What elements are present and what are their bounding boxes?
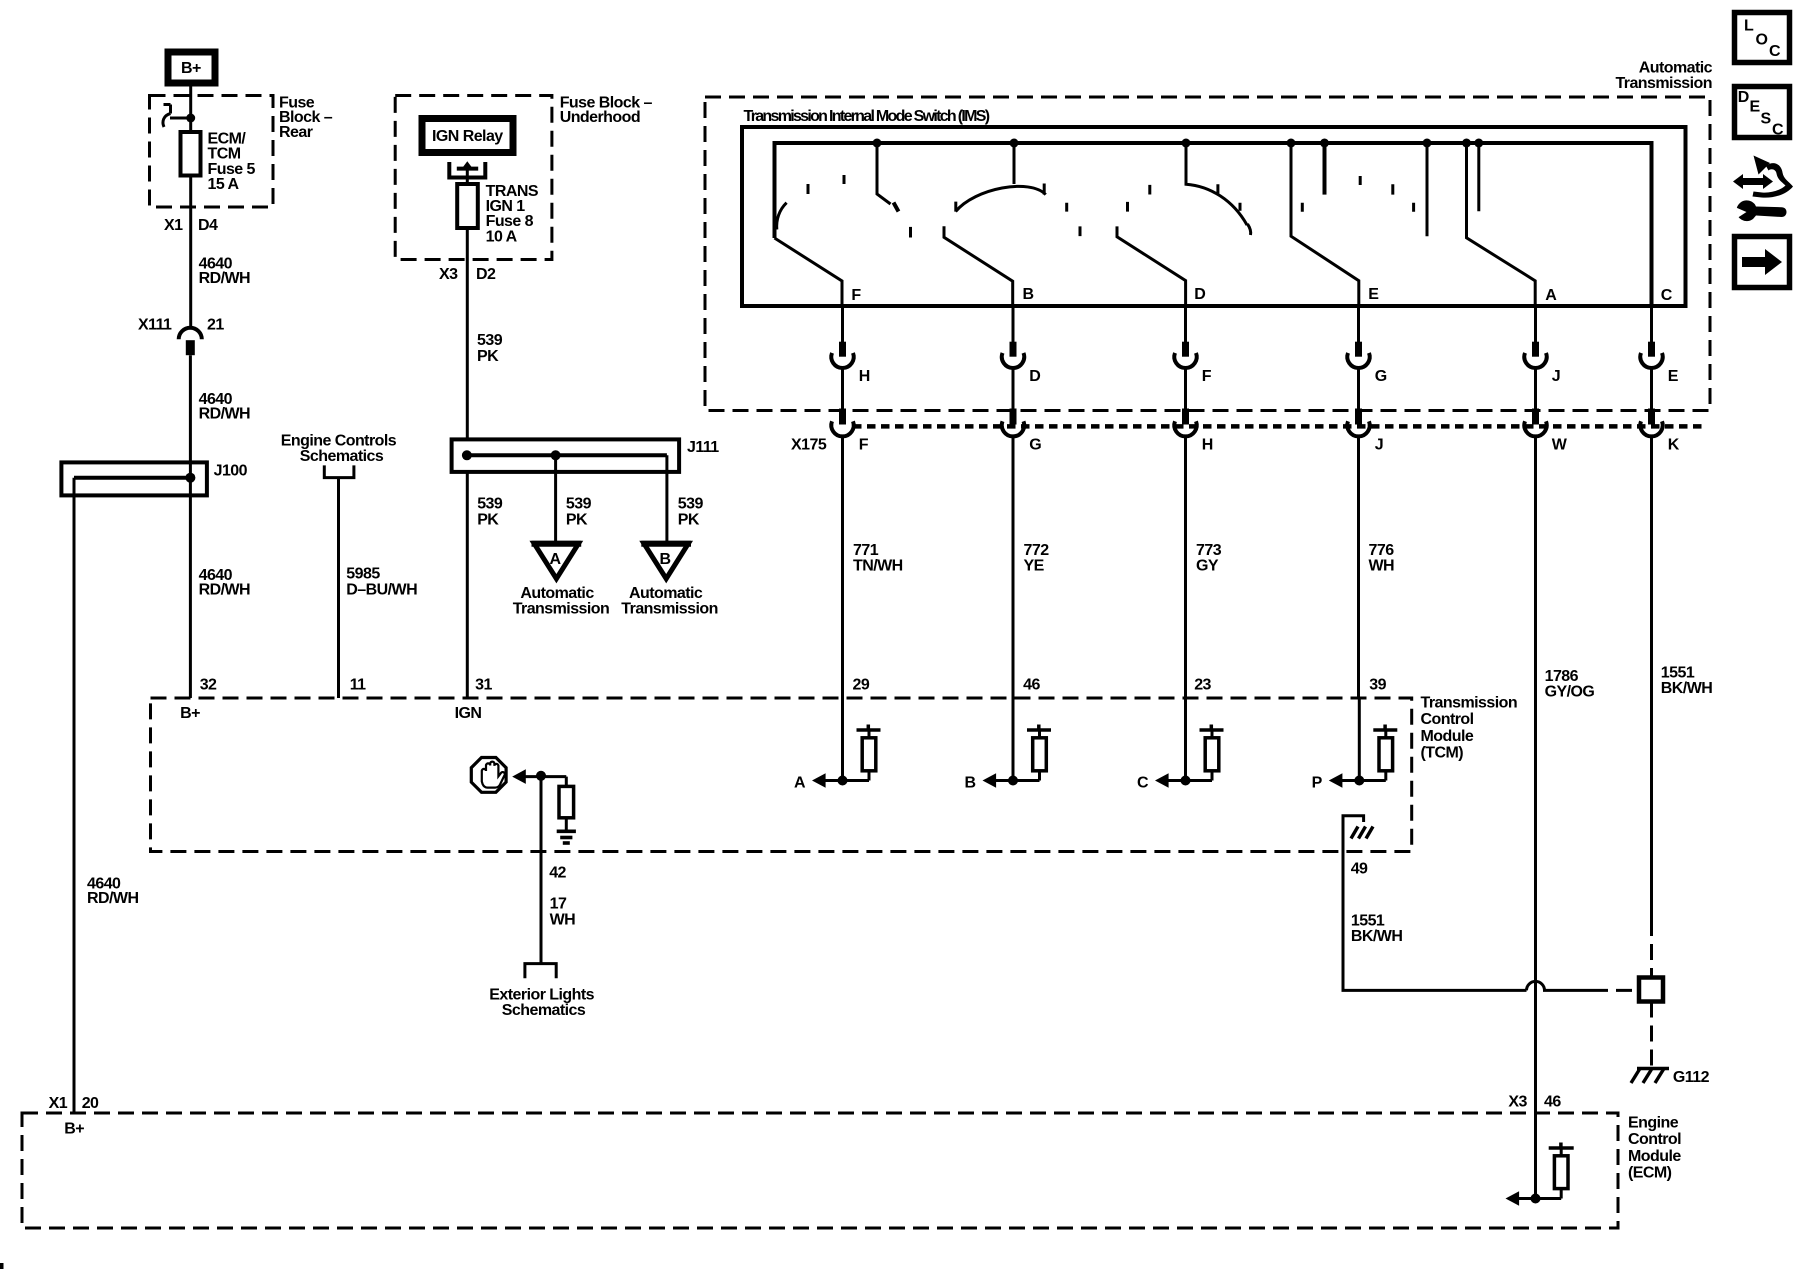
svg-text:BK/WH: BK/WH bbox=[1351, 928, 1402, 945]
svg-text:G: G bbox=[1029, 437, 1041, 454]
svg-text:X1: X1 bbox=[49, 1095, 68, 1112]
IMS wafer5 contact line bbox=[1477, 143, 1480, 211]
svg-text:F: F bbox=[1202, 368, 1212, 385]
fuse clip tap bbox=[163, 105, 195, 128]
IMS wafer3 wiper to pin D bbox=[1117, 226, 1186, 306]
connector X175 pin J bbox=[1347, 409, 1383, 454]
svg-text:Module: Module bbox=[1421, 728, 1474, 745]
svg-text:11: 11 bbox=[350, 677, 366, 694]
IMS wafer2 contact arc bbox=[956, 143, 1046, 212]
connector X175 pin W bbox=[1524, 409, 1567, 454]
TCM input P pull-up bbox=[1312, 698, 1398, 792]
svg-text:B+: B+ bbox=[180, 705, 200, 722]
relay contact symbol bbox=[449, 161, 485, 184]
svg-text:S: S bbox=[1761, 111, 1772, 128]
svg-text:B: B bbox=[660, 551, 671, 568]
svg-text:771: 771 bbox=[853, 542, 879, 559]
svg-text:(TCM): (TCM) bbox=[1421, 745, 1464, 762]
wire B+ to fuse bbox=[189, 86, 192, 132]
svg-text:F: F bbox=[851, 287, 861, 304]
IMS wafer4 wiper to pin E bbox=[1291, 143, 1359, 306]
module TCM dashed box bbox=[151, 698, 1412, 852]
svg-text:Rear: Rear bbox=[279, 124, 313, 141]
connector transmission pin F bbox=[1174, 342, 1211, 385]
svg-text:29: 29 bbox=[853, 677, 870, 694]
svg-text:F: F bbox=[859, 437, 869, 454]
engine controls schematics off-page bracket bbox=[281, 433, 397, 699]
TCM discrete input arrow to octagon bbox=[512, 769, 566, 784]
module ECM dashed box bbox=[22, 1113, 1618, 1228]
svg-text:Transmission: Transmission bbox=[1615, 75, 1712, 92]
wire connector G to X175 J bbox=[1357, 368, 1360, 410]
svg-text:X3: X3 bbox=[1508, 1094, 1527, 1111]
svg-text:J111: J111 bbox=[687, 439, 719, 456]
IMS supply bus bbox=[775, 143, 1652, 306]
svg-text:GY/OG: GY/OG bbox=[1545, 684, 1595, 701]
svg-text:1786: 1786 bbox=[1545, 668, 1579, 685]
svg-text:D2: D2 bbox=[476, 266, 496, 283]
svg-text:X175: X175 bbox=[791, 437, 827, 454]
svg-text:10 A: 10 A bbox=[486, 228, 518, 245]
svg-text:539: 539 bbox=[477, 332, 503, 349]
svg-text:17: 17 bbox=[550, 896, 567, 913]
exterior lights off-page bracket bbox=[525, 964, 556, 979]
wire fuse to J111 bbox=[466, 228, 469, 439]
svg-text:J100: J100 bbox=[214, 463, 248, 480]
svg-text:539: 539 bbox=[678, 496, 704, 513]
svg-text:GY: GY bbox=[1196, 558, 1219, 575]
wire X175-W to ECM bbox=[1534, 436, 1537, 1113]
TCM input C pull-up bbox=[1137, 698, 1224, 792]
node bus junction 3 bbox=[1182, 139, 1191, 148]
svg-text:RD/WH: RD/WH bbox=[199, 406, 250, 423]
svg-text:D4: D4 bbox=[198, 217, 218, 234]
svg-text:PK: PK bbox=[566, 511, 588, 528]
IMS pin C drop bbox=[1650, 143, 1653, 306]
svg-text:C: C bbox=[1772, 122, 1784, 139]
ground (earth) inside TCM bbox=[557, 831, 576, 843]
svg-text:H: H bbox=[859, 368, 870, 385]
svg-text:G112: G112 bbox=[1673, 1069, 1710, 1086]
svg-text:49: 49 bbox=[1351, 861, 1368, 878]
wire X111 to J100 bbox=[189, 355, 192, 462]
wire X175-J to TCM pin 39 bbox=[1357, 436, 1360, 698]
svg-text:46: 46 bbox=[1023, 677, 1040, 694]
node bus junction 8 bbox=[1474, 139, 1483, 148]
svg-text:BK/WH: BK/WH bbox=[1661, 680, 1712, 697]
wire dashed to splice square bbox=[1592, 989, 1639, 992]
svg-text:IGN: IGN bbox=[455, 705, 482, 722]
IMS wafer2 wiper to pin B bbox=[944, 226, 1013, 306]
svg-text:J: J bbox=[1552, 368, 1560, 385]
TCM input A pull-up bbox=[794, 698, 881, 792]
svg-text:W: W bbox=[1552, 437, 1568, 454]
wire IMS pin F to connector H bbox=[841, 306, 844, 342]
svg-text:K: K bbox=[1668, 437, 1680, 454]
connector X175 pin K bbox=[1640, 409, 1679, 454]
svg-text:23: 23 bbox=[1194, 677, 1211, 694]
wire TCM pin 49 down and across bbox=[1343, 852, 1527, 991]
svg-text:42: 42 bbox=[549, 865, 566, 882]
fuse TRANS IGN 1 Fuse 8 10 A bbox=[457, 184, 478, 228]
svg-text:D: D bbox=[1029, 368, 1040, 385]
svg-text:Automatic: Automatic bbox=[629, 585, 703, 602]
fuse block rear dashed box bbox=[150, 96, 274, 208]
svg-text:O: O bbox=[1756, 32, 1768, 49]
wire J100 left branch down to ECM bbox=[73, 478, 76, 1113]
wire K dashed to splice square bbox=[1650, 920, 1653, 978]
svg-text:X3: X3 bbox=[439, 266, 458, 283]
wire IMS pin B to connector D bbox=[1012, 306, 1015, 342]
svg-text:1551: 1551 bbox=[1351, 913, 1385, 930]
svg-text:P: P bbox=[1312, 775, 1323, 792]
svg-text:Underhood: Underhood bbox=[560, 109, 640, 126]
svg-text:H: H bbox=[1202, 437, 1213, 454]
wire fuse to X111 bbox=[189, 176, 192, 329]
off-page triangle A Automatic Transmission bbox=[513, 543, 610, 617]
svg-text:C: C bbox=[1769, 43, 1781, 60]
switch IMS box bbox=[742, 127, 1686, 306]
connector transmission pin J bbox=[1524, 342, 1560, 385]
node bus junction 5 bbox=[1320, 139, 1329, 148]
IMS wafer2 feed stub with hook bbox=[877, 143, 891, 204]
svg-text:39: 39 bbox=[1369, 677, 1386, 694]
wire hop over W wire bbox=[1527, 981, 1593, 990]
IMS wafer1 wiper to pin F bbox=[775, 238, 843, 306]
svg-text:539: 539 bbox=[477, 496, 503, 513]
connector transmission pin E bbox=[1640, 342, 1678, 385]
svg-text:B+: B+ bbox=[64, 1121, 84, 1138]
svg-text:J: J bbox=[1375, 437, 1383, 454]
svg-text:TN/WH: TN/WH bbox=[853, 558, 903, 575]
svg-text:X111: X111 bbox=[138, 317, 172, 334]
wire J111 to TCM pin 31 bbox=[466, 472, 469, 698]
TCM stop-hand octagon indicator bbox=[471, 758, 506, 793]
wire dashed splice to G112 bbox=[1650, 1002, 1653, 1067]
svg-text:L: L bbox=[1744, 18, 1754, 35]
stray mark bottom left bbox=[0, 1263, 4, 1269]
svg-text:Transmission: Transmission bbox=[621, 601, 718, 618]
automatic transmission dashed box bbox=[705, 97, 1710, 411]
svg-text:RD/WH: RD/WH bbox=[87, 890, 138, 907]
svg-text:E: E bbox=[1668, 368, 1679, 385]
svg-text:B+: B+ bbox=[181, 60, 201, 77]
wire J100 through to TCM pin 32 bbox=[189, 462, 192, 698]
svg-text:Engine: Engine bbox=[1628, 1115, 1679, 1132]
wire IMS pin E to connector G bbox=[1357, 306, 1360, 342]
svg-text:A: A bbox=[1545, 287, 1557, 304]
svg-text:32: 32 bbox=[200, 677, 217, 694]
IMS wafer1 contact ticks bbox=[808, 175, 844, 194]
svg-text:Engine Controls: Engine Controls bbox=[281, 433, 397, 450]
svg-text:RD/WH: RD/WH bbox=[199, 582, 250, 599]
svg-text:E: E bbox=[1368, 286, 1379, 303]
svg-text:D: D bbox=[1194, 286, 1205, 303]
svg-text:46: 46 bbox=[1544, 1094, 1561, 1111]
icon DESC box bbox=[1735, 87, 1790, 139]
fuse block underhood dashed box bbox=[395, 96, 552, 260]
svg-text:PK: PK bbox=[477, 348, 499, 365]
connector transmission pin D bbox=[1002, 342, 1040, 385]
wire J111 to triangle B bbox=[665, 455, 668, 543]
IMS wafer5 wiper to pin A bbox=[1467, 143, 1536, 306]
node bus junction 2 bbox=[1010, 139, 1019, 148]
svg-text:20: 20 bbox=[82, 1095, 99, 1112]
svg-text:(ECM): (ECM) bbox=[1628, 1165, 1672, 1182]
svg-text:YE: YE bbox=[1024, 558, 1045, 575]
svg-text:5985: 5985 bbox=[346, 566, 380, 583]
svg-text:Schematics: Schematics bbox=[300, 448, 384, 465]
svg-text:E: E bbox=[1750, 99, 1761, 116]
svg-text:C: C bbox=[1137, 775, 1149, 792]
wire TCM pin 42 down bbox=[540, 777, 543, 964]
IMS wafer4 feed stub bbox=[1323, 143, 1327, 195]
svg-text:A: A bbox=[550, 551, 562, 568]
svg-text:15 A: 15 A bbox=[208, 176, 240, 193]
svg-text:Transmission Internal Mode Swi: Transmission Internal Mode Switch (IMS) bbox=[744, 108, 990, 125]
connector transmission pin H bbox=[831, 342, 869, 385]
svg-text:PK: PK bbox=[678, 511, 700, 528]
svg-text:D–BU/WH: D–BU/WH bbox=[346, 582, 417, 599]
wire connector H to X175 F bbox=[841, 368, 844, 410]
svg-text:Transmission: Transmission bbox=[513, 601, 610, 618]
svg-text:A: A bbox=[794, 775, 806, 792]
off-page triangle B Automatic Transmission bbox=[621, 543, 718, 617]
svg-text:21: 21 bbox=[207, 317, 224, 334]
TCM pull-down resistor bbox=[559, 777, 574, 830]
wire X175-H to TCM pin 23 bbox=[1184, 436, 1187, 698]
icon forward arrow box bbox=[1735, 237, 1790, 288]
splice pack J100 bbox=[61, 462, 247, 495]
chassis ground inside TCM (pin 49 net) bbox=[1343, 816, 1373, 852]
icon LOC box bbox=[1735, 13, 1790, 63]
svg-text:D: D bbox=[1738, 89, 1750, 106]
svg-text:Automatic: Automatic bbox=[520, 585, 594, 602]
ECM input W pull-up bbox=[1506, 1113, 1574, 1206]
relay IGN Relay box bbox=[422, 119, 513, 153]
node bus junction 6 bbox=[1423, 139, 1432, 148]
IMS wafer4 contact ticks bbox=[1302, 176, 1413, 212]
svg-text:539: 539 bbox=[566, 496, 592, 513]
wire connector E to X175 K bbox=[1650, 368, 1653, 410]
battery feed B+ box bbox=[168, 52, 215, 83]
svg-text:31: 31 bbox=[475, 677, 492, 694]
connector X111 pin 21 bbox=[138, 317, 224, 356]
connector X175 harness line bbox=[853, 424, 1706, 429]
IMS wafer1 wiper arc bbox=[777, 203, 787, 230]
wire X175-G to TCM pin 46 bbox=[1012, 436, 1015, 698]
connector X175 pin F bbox=[831, 409, 868, 454]
node bus junction 4 bbox=[1287, 139, 1296, 148]
svg-text:WH: WH bbox=[1369, 558, 1395, 575]
svg-text:773: 773 bbox=[1196, 542, 1222, 559]
svg-text:776: 776 bbox=[1369, 542, 1395, 559]
wire IMS pin C to connector E bbox=[1650, 306, 1653, 342]
inline splice square connector bbox=[1639, 978, 1663, 1002]
svg-text:Transmission: Transmission bbox=[1421, 695, 1518, 712]
svg-text:Control: Control bbox=[1628, 1131, 1681, 1148]
wire connector F to X175 H bbox=[1184, 368, 1187, 410]
svg-text:Schematics: Schematics bbox=[502, 1002, 586, 1019]
icon wiring repair (arrow + wrench) bbox=[1733, 156, 1793, 222]
svg-text:WH: WH bbox=[550, 912, 576, 929]
connector transmission pin G bbox=[1347, 342, 1386, 385]
svg-text:Control: Control bbox=[1421, 711, 1474, 728]
svg-text:G: G bbox=[1375, 368, 1387, 385]
svg-text:RD/WH: RD/WH bbox=[199, 270, 250, 287]
wire connector D to X175 G bbox=[1012, 368, 1015, 410]
node bus junction 7 bbox=[1462, 139, 1471, 148]
IMS wafer4 contact line bbox=[1426, 143, 1429, 236]
svg-text:Exterior Lights: Exterior Lights bbox=[489, 987, 594, 1004]
TCM input B pull-up bbox=[964, 698, 1051, 792]
node bus junction 1 bbox=[873, 139, 882, 148]
fuse ECM/TCM Fuse 5 15 A bbox=[181, 132, 201, 176]
svg-text:1551: 1551 bbox=[1661, 665, 1695, 682]
svg-text:B: B bbox=[964, 775, 975, 792]
svg-text:IGN Relay: IGN Relay bbox=[432, 128, 503, 145]
splice bar J111 bbox=[452, 439, 720, 472]
IMS wafer3 feed and contact arc bbox=[1186, 143, 1251, 235]
svg-text:Module: Module bbox=[1628, 1148, 1681, 1165]
wire J111 to triangle A bbox=[554, 455, 557, 543]
wire IMS pin A to connector J bbox=[1534, 306, 1537, 342]
wire IMS pin D to connector F bbox=[1184, 306, 1187, 342]
ground G112 chassis symbol bbox=[1631, 1069, 1710, 1087]
wire X175-K toward G112 (solid part) bbox=[1650, 436, 1653, 920]
IMS wafer3 contact ticks bbox=[1067, 185, 1150, 236]
IMS wafer2 contact tick bbox=[909, 227, 912, 238]
svg-text:B: B bbox=[1023, 286, 1034, 303]
wire X175-F to TCM pin 29 bbox=[841, 436, 844, 698]
wire connector J to X175 W bbox=[1534, 368, 1537, 410]
svg-text:Automatic: Automatic bbox=[1639, 60, 1713, 77]
svg-text:X1: X1 bbox=[164, 217, 183, 234]
svg-text:772: 772 bbox=[1024, 542, 1050, 559]
svg-text:PK: PK bbox=[477, 511, 499, 528]
connector X175 pin H bbox=[1174, 409, 1212, 454]
svg-text:C: C bbox=[1661, 287, 1673, 304]
connector X175 pin G bbox=[1002, 409, 1041, 454]
